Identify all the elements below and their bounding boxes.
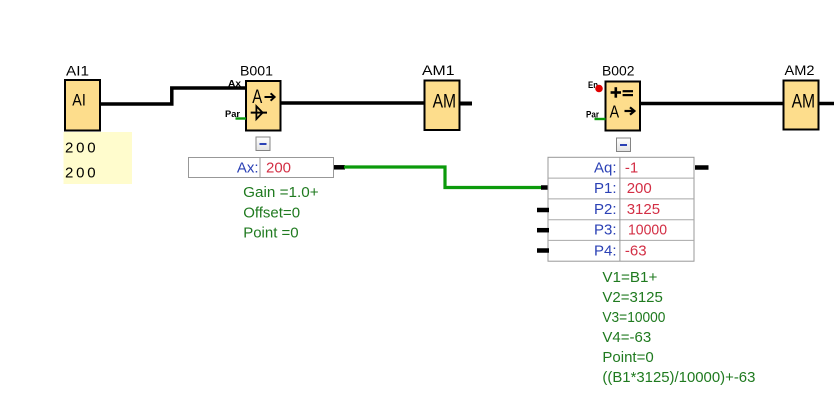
svg-text:AM1: AM1 xyxy=(422,62,455,78)
block B002 xyxy=(606,82,641,131)
svg-text:200: 200 xyxy=(65,139,98,156)
block B001 xyxy=(246,81,281,131)
wire B002 to AM2 xyxy=(640,102,784,106)
pin stub Par of B001 xyxy=(236,117,247,119)
wire stub Aq output xyxy=(695,165,709,170)
wire stub AM1 output xyxy=(459,102,472,106)
svg-text:B001: B001 xyxy=(240,63,273,79)
wire stub P4 input xyxy=(537,248,549,253)
arrow icon inside B002 xyxy=(625,107,635,114)
svg-text:V3=10000: V3=10000 xyxy=(602,309,665,326)
svg-text:V4=-63: V4=-63 xyxy=(602,329,651,346)
svg-text:((B1*3125)/10000)+-63: ((B1*3125)/10000)+-63 xyxy=(602,369,755,386)
svg-text:P2:: P2: xyxy=(594,201,617,218)
svg-text:Point=0: Point=0 xyxy=(602,349,653,366)
svg-text:Gain =1.0+: Gain =1.0+ xyxy=(243,184,319,201)
plus-equals icon inside B002 xyxy=(611,87,633,98)
wire B001 to AM1 xyxy=(280,101,425,105)
svg-text:Ax: Ax xyxy=(228,79,242,90)
block AI1 xyxy=(65,80,100,131)
comment note (yellow) xyxy=(64,132,133,184)
wire stub Ax box output xyxy=(334,165,345,170)
svg-text:10000: 10000 xyxy=(628,222,667,239)
svg-text:AI: AI xyxy=(72,90,86,109)
svg-text:-1: -1 xyxy=(625,159,638,176)
svg-text:Ax:: Ax: xyxy=(237,159,259,176)
svg-text:AI1: AI1 xyxy=(66,63,89,79)
red marker dot on En pin xyxy=(595,85,603,93)
svg-text:Offset=0: Offset=0 xyxy=(243,205,300,222)
svg-text:AM2: AM2 xyxy=(785,62,815,78)
collapse button of B002 xyxy=(617,138,631,152)
svg-text:A: A xyxy=(610,102,620,122)
parameter box Ax of B001 xyxy=(189,158,334,178)
green wire Ax box to P1 xyxy=(344,167,543,188)
svg-text:200: 200 xyxy=(266,159,291,176)
wire stub P2 input xyxy=(537,208,549,213)
svg-text:P4:: P4: xyxy=(594,242,617,259)
wire stub P3 input xyxy=(537,228,549,233)
parameter table of B002 xyxy=(548,157,694,261)
svg-text:B002: B002 xyxy=(602,63,635,79)
svg-text:AM: AM xyxy=(792,92,816,113)
block AM1 xyxy=(425,81,460,131)
svg-text:P3:: P3: xyxy=(594,222,617,239)
svg-text:200: 200 xyxy=(65,164,98,181)
block AM2 xyxy=(784,81,819,130)
wire AI1 to B001 xyxy=(100,88,247,104)
pin stub Par of B002 xyxy=(595,118,606,120)
collapse button of B001 xyxy=(256,137,270,151)
wire stub P1 input xyxy=(541,185,549,190)
svg-text:Aq:: Aq: xyxy=(594,159,617,176)
wire AM2 output xyxy=(819,102,834,106)
amplifier symbol inside B001 xyxy=(251,106,267,119)
svg-text:V1=B1+: V1=B1+ xyxy=(602,269,657,286)
svg-text:P1:: P1: xyxy=(594,180,617,197)
svg-text:V2=3125: V2=3125 xyxy=(602,289,662,306)
svg-text:3125: 3125 xyxy=(627,201,660,218)
svg-text:-63: -63 xyxy=(625,242,647,259)
svg-text:AM: AM xyxy=(433,92,457,113)
svg-text:Point =0: Point =0 xyxy=(243,225,298,242)
svg-text:A: A xyxy=(252,87,262,108)
arrow icon inside B001 xyxy=(265,93,275,100)
svg-text:200: 200 xyxy=(627,180,652,197)
